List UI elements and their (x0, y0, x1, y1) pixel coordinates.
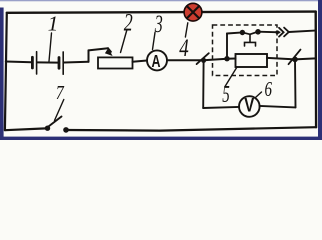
battery GB cell1 negative plate (short thick) (31, 57, 34, 68)
svg-text:2: 2 (124, 7, 133, 36)
lamp HL4 body (184, 3, 202, 21)
junction dot right tap (292, 57, 298, 63)
wire: voltmeter loop bottom right run (260, 106, 296, 108)
svg-text:7: 7 (56, 82, 65, 104)
wire: rheostat slider top bar (89, 48, 109, 50)
wire: contact junction to resistor R5 (227, 58, 236, 60)
wire: right contact to connector arrow (258, 31, 280, 34)
scan frame bottom band (0, 137, 322, 140)
wire: left border to battery (6, 61, 32, 64)
label pointer 6 (256, 92, 262, 98)
label pointer 7 (55, 100, 64, 121)
battery GB cell2 positive plate (long thin) (62, 52, 64, 74)
wire: connector arrow to right border (289, 31, 315, 32)
wire: riser elbow to left contact (227, 32, 242, 33)
rheostat R2 body (98, 57, 133, 68)
svg-text:3: 3 (154, 9, 163, 38)
wire: contact riser from junction (226, 34, 228, 59)
wire: bottom border right of switch (67, 127, 317, 130)
svg-text:5: 5 (222, 81, 230, 108)
label pointer 2 (121, 30, 128, 53)
svg-text:4: 4 (179, 35, 189, 62)
junction blob at dashed-box exit (275, 30, 279, 34)
label pointer 5 (225, 67, 237, 87)
svg-text:1: 1 (48, 12, 59, 36)
svg-text:6: 6 (264, 77, 272, 101)
label pointer 3 (153, 33, 156, 50)
rheostat slider arrow shaft (108, 48, 111, 52)
switch K7 blade (47, 117, 62, 128)
wire: resistor R5 to right tap junction (267, 58, 295, 60)
label pointer 4 (185, 23, 187, 37)
wire: voltmeter loop bottom left run (203, 107, 239, 108)
contact blade left leaf (242, 32, 250, 34)
wire: ammeter to left tap junction (167, 59, 204, 61)
wire: right border (315, 12, 318, 128)
contact dot left (240, 30, 245, 35)
junction dot at contact riser (224, 56, 229, 61)
wire: left tap to contact junction (204, 59, 227, 61)
wire: rheostat to ammeter (133, 61, 148, 62)
wire: voltmeter loop left vertical (202, 60, 204, 108)
voltmeter V6 body (239, 96, 260, 117)
switch dot right (63, 127, 69, 133)
scan frame right band (318, 0, 322, 140)
contact actuator yoke (245, 42, 256, 46)
wire: left border (5, 13, 7, 130)
wire: between battery cells (38, 61, 58, 63)
switch dot left (45, 126, 50, 131)
slash mark over left tap (197, 53, 209, 64)
wire: rheostat slider riser (88, 50, 90, 61)
connector arrow chevron 2 (284, 28, 289, 37)
svg-text:A: A (152, 51, 161, 71)
wire: battery to rheostat riser (64, 61, 88, 64)
junction dot left tap (201, 58, 206, 63)
sensor dashed box (213, 25, 278, 76)
resistor R5 body (236, 54, 268, 67)
wire: bottom border left of switch (5, 128, 46, 130)
rheostat slider arrowhead (105, 48, 113, 56)
contact actuator stem (249, 35, 251, 42)
scan frame left band (0, 8, 4, 141)
contact blade right leaf (250, 32, 258, 35)
contact dot right (255, 29, 261, 35)
battery GB cell2 negative plate (short thick) (58, 58, 61, 69)
wire: top border (7, 12, 316, 13)
svg-text:V: V (244, 96, 254, 117)
slash mark over right tap (289, 50, 301, 65)
battery GB cell1 positive plate (long thin) (36, 52, 38, 74)
connector arrow chevron 1 (279, 28, 284, 37)
scan frame top edge (0, 0, 322, 1)
wire: voltmeter loop right vertical (294, 59, 297, 107)
lamp HL4 cross (187, 6, 199, 18)
label pointer 1 (49, 33, 52, 61)
ammeter A3 body (147, 50, 167, 70)
wire: right tap to right border (295, 58, 316, 59)
